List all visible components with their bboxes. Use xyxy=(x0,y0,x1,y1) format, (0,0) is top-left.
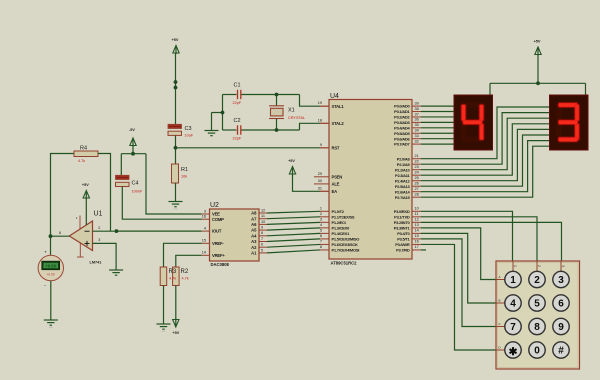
svg-text:P1.5/CEX2/MISO: P1.5/CEX2/MISO xyxy=(332,237,360,242)
svg-text:P1.1/T2EX/SS: P1.1/T2EX/SS xyxy=(332,214,355,219)
svg-text:+0.00: +0.00 xyxy=(45,264,56,269)
svg-text:ALE: ALE xyxy=(332,182,340,187)
svg-text:A6: A6 xyxy=(251,222,257,227)
svg-text:8: 8 xyxy=(534,322,540,333)
svg-text:24: 24 xyxy=(415,171,419,175)
svg-text:AT89C51RC2: AT89C51RC2 xyxy=(331,261,358,266)
svg-text:14: 14 xyxy=(415,229,419,233)
svg-text:EA: EA xyxy=(332,189,338,194)
svg-text:3: 3 xyxy=(558,275,564,286)
svg-text:VREF+: VREF+ xyxy=(212,253,225,258)
svg-text:P1.0/T2: P1.0/T2 xyxy=(332,209,345,214)
svg-text:C4: C4 xyxy=(132,181,139,187)
svg-text:U2: U2 xyxy=(210,202,219,209)
svg-text:2: 2 xyxy=(98,226,100,230)
svg-text:10k: 10k xyxy=(181,175,187,179)
svg-text:P2.4/A12: P2.4/A12 xyxy=(395,178,411,183)
svg-text:P0.5/AD5: P0.5/AD5 xyxy=(394,131,410,136)
svg-text:B: B xyxy=(498,298,500,302)
svg-text:15: 15 xyxy=(202,239,206,243)
svg-text:12: 12 xyxy=(261,208,265,212)
svg-text:P3.7/RD: P3.7/RD xyxy=(396,248,410,253)
svg-text:P2.6/A14: P2.6/A14 xyxy=(395,189,411,194)
svg-text:R3: R3 xyxy=(169,269,177,275)
svg-text:37: 37 xyxy=(415,112,419,116)
svg-text:P1.2/ECI: P1.2/ECI xyxy=(332,220,346,225)
svg-text:22pF: 22pF xyxy=(233,101,242,105)
svg-text:text: text xyxy=(49,326,53,329)
svg-text:4: 4 xyxy=(510,299,516,310)
svg-text:P1.4/CEX1: P1.4/CEX1 xyxy=(332,231,351,236)
svg-text:-5V: -5V xyxy=(129,128,135,132)
svg-text:35: 35 xyxy=(415,123,419,127)
svg-text:22pF: 22pF xyxy=(233,136,242,140)
svg-text:P2.2/A10: P2.2/A10 xyxy=(395,167,411,172)
svg-text:15: 15 xyxy=(415,234,419,238)
svg-text:4: 4 xyxy=(320,223,322,227)
svg-text:R2: R2 xyxy=(181,269,189,275)
svg-text:✱: ✱ xyxy=(509,346,518,358)
svg-text:6: 6 xyxy=(59,231,61,235)
svg-text:36: 36 xyxy=(415,118,419,122)
svg-text:23: 23 xyxy=(415,165,419,169)
svg-text:+5V: +5V xyxy=(172,331,179,335)
svg-text:P0.1/AD1: P0.1/AD1 xyxy=(394,109,410,114)
svg-text:#: # xyxy=(558,346,564,357)
svg-text:+0.09: +0.09 xyxy=(46,272,54,276)
svg-text:R1: R1 xyxy=(181,167,188,173)
svg-text:27: 27 xyxy=(415,187,419,191)
svg-text:+5V: +5V xyxy=(172,38,179,42)
svg-text:3: 3 xyxy=(98,238,100,242)
svg-text:IOUT: IOUT xyxy=(212,229,222,234)
svg-text:18: 18 xyxy=(318,118,322,122)
svg-text:P3.3/INT1: P3.3/INT1 xyxy=(394,225,411,230)
svg-text:26: 26 xyxy=(415,182,419,186)
svg-text:R4: R4 xyxy=(80,146,87,152)
svg-text:11: 11 xyxy=(261,214,265,218)
svg-text:P2.3/A11: P2.3/A11 xyxy=(395,173,410,178)
svg-text:P0.7/AD7: P0.7/AD7 xyxy=(394,142,410,147)
svg-text:P2.1/A9: P2.1/A9 xyxy=(397,162,411,167)
svg-text:C1: C1 xyxy=(234,83,241,89)
svg-text:P3.2/INT0: P3.2/INT0 xyxy=(394,220,411,225)
svg-text:8: 8 xyxy=(320,245,322,249)
svg-text:4: 4 xyxy=(204,227,206,231)
svg-text:A5: A5 xyxy=(251,228,257,233)
svg-text:A7: A7 xyxy=(251,216,257,221)
svg-text:8: 8 xyxy=(261,231,263,235)
svg-text:5: 5 xyxy=(261,248,263,252)
svg-text:13: 13 xyxy=(415,223,419,227)
svg-text:7: 7 xyxy=(320,240,322,244)
svg-text:6: 6 xyxy=(261,243,263,247)
svg-text:12: 12 xyxy=(415,218,419,222)
svg-text:7: 7 xyxy=(261,237,263,241)
svg-text:25: 25 xyxy=(415,176,419,180)
svg-text:RST: RST xyxy=(332,145,340,150)
svg-text:P0.3/AD3: P0.3/AD3 xyxy=(394,120,410,125)
svg-text:9: 9 xyxy=(558,322,564,333)
svg-text:XTAL1: XTAL1 xyxy=(332,104,345,109)
svg-text:P2.5/A13: P2.5/A13 xyxy=(395,184,411,189)
svg-text:10: 10 xyxy=(415,207,419,211)
svg-text:3: 3 xyxy=(320,218,322,222)
svg-text:A8: A8 xyxy=(251,211,257,216)
svg-text:22: 22 xyxy=(415,160,419,164)
svg-text:P0.6/AD6: P0.6/AD6 xyxy=(394,136,410,141)
svg-text:11: 11 xyxy=(415,212,419,216)
svg-text:CRYSTAL: CRYSTAL xyxy=(288,116,305,120)
svg-text:30: 30 xyxy=(318,179,322,183)
svg-text:A2: A2 xyxy=(251,245,257,250)
svg-text:P0.4/AD4: P0.4/AD4 xyxy=(394,125,410,130)
svg-text:5: 5 xyxy=(534,299,540,310)
svg-text:31: 31 xyxy=(318,186,322,190)
svg-text:7: 7 xyxy=(510,322,516,333)
svg-text:2: 2 xyxy=(320,212,322,216)
svg-text:9: 9 xyxy=(320,143,322,147)
svg-text:29: 29 xyxy=(318,172,322,176)
svg-text:XTAL2: XTAL2 xyxy=(332,121,345,126)
svg-text:text: text xyxy=(174,208,178,211)
svg-text:COMP: COMP xyxy=(212,217,224,222)
svg-text:text: text xyxy=(162,330,166,333)
svg-text:P3.0/RXD: P3.0/RXD xyxy=(394,209,410,214)
svg-text:P3.1/TXD: P3.1/TXD xyxy=(394,214,410,219)
svg-text:34: 34 xyxy=(415,129,419,133)
svg-text:U1: U1 xyxy=(94,211,103,218)
svg-text:33: 33 xyxy=(415,134,419,138)
svg-text:3: 3 xyxy=(561,265,565,267)
svg-text:10uF: 10uF xyxy=(185,134,194,138)
svg-text:P0.0/AD0: P0.0/AD0 xyxy=(394,104,410,109)
svg-text:39: 39 xyxy=(415,101,419,105)
svg-text:P1.3/CEX0: P1.3/CEX0 xyxy=(332,225,351,230)
svg-text:19: 19 xyxy=(318,101,322,105)
svg-text:+5V: +5V xyxy=(288,159,295,163)
svg-text:LM741: LM741 xyxy=(90,260,102,264)
svg-text:0: 0 xyxy=(534,346,540,357)
svg-text:28: 28 xyxy=(415,193,419,197)
svg-text:P1.6/CEX3/SCK: P1.6/CEX3/SCK xyxy=(332,242,358,247)
svg-text:5: 5 xyxy=(320,229,322,233)
svg-text:+5V: +5V xyxy=(534,40,541,44)
svg-text:9: 9 xyxy=(261,226,263,230)
svg-text:X1: X1 xyxy=(288,108,295,114)
svg-text:1: 1 xyxy=(320,207,322,211)
svg-text:A1: A1 xyxy=(251,251,257,256)
svg-text:100nF: 100nF xyxy=(132,189,143,193)
svg-text:DAC0808: DAC0808 xyxy=(211,262,230,267)
svg-text:2: 2 xyxy=(534,275,540,286)
svg-text:C3: C3 xyxy=(185,126,192,132)
svg-text:P1.7/CEX4/MOSI: P1.7/CEX4/MOSI xyxy=(332,248,360,253)
svg-text:10: 10 xyxy=(261,220,265,224)
svg-text:+: + xyxy=(44,250,47,255)
svg-text:6: 6 xyxy=(558,299,564,310)
svg-text:4.7k: 4.7k xyxy=(169,277,176,281)
svg-text:P3.5/T1: P3.5/T1 xyxy=(397,237,410,242)
svg-text:+5V: +5V xyxy=(82,183,89,187)
svg-text:4.7k: 4.7k xyxy=(78,159,85,163)
svg-text:38: 38 xyxy=(415,107,419,111)
svg-text:A3: A3 xyxy=(251,239,257,244)
svg-text:16: 16 xyxy=(415,240,419,244)
svg-text:P2.0/A8: P2.0/A8 xyxy=(397,156,411,161)
svg-text:A4: A4 xyxy=(251,233,257,238)
svg-text:16: 16 xyxy=(202,215,206,219)
svg-text:1: 1 xyxy=(513,265,517,267)
svg-text:3: 3 xyxy=(204,209,206,213)
svg-text:U4: U4 xyxy=(330,93,339,100)
svg-text:VREF-: VREF- xyxy=(212,241,224,246)
svg-text:A: A xyxy=(498,275,500,279)
svg-text:P0.2/AD2: P0.2/AD2 xyxy=(394,115,410,120)
svg-text:21: 21 xyxy=(415,154,419,158)
svg-text:P3.6/WR: P3.6/WR xyxy=(395,242,410,247)
svg-text:C2: C2 xyxy=(234,118,241,124)
svg-text:4.7k: 4.7k xyxy=(182,277,189,281)
svg-text:32: 32 xyxy=(415,139,419,143)
svg-text:17: 17 xyxy=(415,245,419,249)
svg-text:P2.7/A15: P2.7/A15 xyxy=(395,195,411,200)
svg-text:6: 6 xyxy=(320,234,322,238)
svg-text:2: 2 xyxy=(537,265,541,267)
svg-text:1: 1 xyxy=(510,275,516,286)
svg-text:14: 14 xyxy=(202,251,206,255)
svg-text:PSEN: PSEN xyxy=(332,174,343,179)
svg-text:P3.4/T0: P3.4/T0 xyxy=(397,231,410,236)
